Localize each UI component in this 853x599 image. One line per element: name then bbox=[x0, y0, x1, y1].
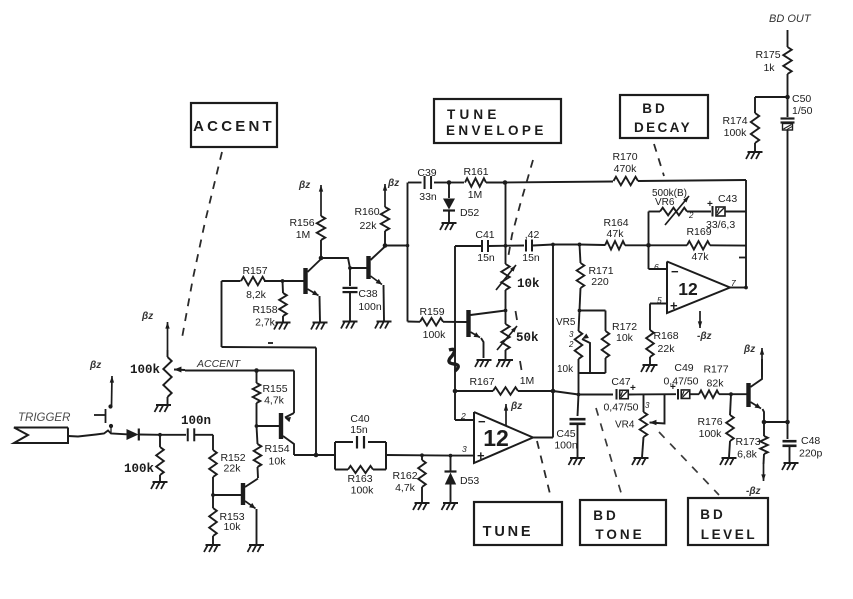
svg-text:100k: 100k bbox=[724, 127, 748, 139]
svg-text:1M: 1M bbox=[296, 229, 311, 241]
svg-text:R177: R177 bbox=[703, 364, 728, 376]
svg-text:R176: R176 bbox=[697, 416, 722, 428]
svg-text:10k: 10k bbox=[224, 521, 242, 533]
svg-text:3: 3 bbox=[569, 330, 574, 339]
svg-text:βz: βz bbox=[510, 401, 522, 412]
svg-text:C49: C49 bbox=[674, 362, 693, 374]
svg-text:6: 6 bbox=[654, 262, 659, 272]
svg-text:3: 3 bbox=[462, 444, 467, 454]
svg-text:22k: 22k bbox=[360, 220, 378, 232]
svg-text:12: 12 bbox=[483, 425, 509, 451]
svg-text:100k: 100k bbox=[351, 485, 375, 497]
svg-text:R156: R156 bbox=[289, 217, 314, 229]
svg-text:C48: C48 bbox=[801, 435, 820, 447]
svg-text:BD: BD bbox=[593, 508, 619, 523]
svg-text:TRIGGER: TRIGGER bbox=[18, 412, 70, 424]
svg-text:βz: βz bbox=[387, 178, 399, 189]
svg-text:C43: C43 bbox=[718, 193, 737, 205]
svg-text:15n: 15n bbox=[522, 252, 540, 264]
svg-text:βz: βz bbox=[141, 311, 153, 322]
svg-text:4,7k: 4,7k bbox=[264, 395, 285, 407]
svg-text:ENVELOPE: ENVELOPE bbox=[446, 123, 547, 138]
svg-text:−: − bbox=[478, 414, 486, 429]
svg-text:TUNE: TUNE bbox=[447, 107, 501, 122]
svg-text:0,47/50: 0,47/50 bbox=[603, 402, 638, 414]
svg-text:2,7k: 2,7k bbox=[255, 317, 276, 329]
svg-text:BD: BD bbox=[700, 507, 726, 522]
svg-text:3: 3 bbox=[645, 401, 650, 410]
svg-text:C41: C41 bbox=[475, 229, 494, 241]
svg-text:0,47/50: 0,47/50 bbox=[663, 376, 698, 388]
svg-text:10k: 10k bbox=[269, 456, 287, 468]
svg-text:470k: 470k bbox=[614, 163, 638, 175]
svg-text:100k: 100k bbox=[124, 462, 155, 476]
svg-text:47k: 47k bbox=[607, 228, 625, 240]
svg-text:8,2k: 8,2k bbox=[246, 289, 267, 301]
svg-text:33/6,3: 33/6,3 bbox=[706, 219, 735, 231]
svg-text:10k: 10k bbox=[557, 364, 574, 375]
svg-text:-βz: -βz bbox=[746, 486, 761, 497]
svg-text:R160: R160 bbox=[354, 206, 379, 218]
svg-text:R167: R167 bbox=[469, 376, 494, 388]
svg-text:12: 12 bbox=[678, 279, 698, 299]
svg-text:βz: βz bbox=[298, 180, 310, 191]
svg-text:10k: 10k bbox=[517, 277, 540, 291]
svg-text:VR5: VR5 bbox=[556, 317, 576, 328]
svg-text:ACCENT: ACCENT bbox=[193, 118, 275, 135]
svg-text:R159: R159 bbox=[419, 306, 444, 318]
svg-text:33n: 33n bbox=[419, 191, 437, 203]
svg-text:-βz: -βz bbox=[697, 331, 712, 342]
svg-text:DECAY: DECAY bbox=[634, 120, 692, 135]
svg-text:R163: R163 bbox=[347, 473, 372, 485]
svg-text:βz: βz bbox=[89, 360, 101, 371]
svg-text:6,8k: 6,8k bbox=[737, 449, 758, 461]
svg-text:22k: 22k bbox=[224, 463, 242, 475]
svg-text:R158: R158 bbox=[252, 304, 277, 316]
svg-text:15n: 15n bbox=[477, 252, 495, 264]
svg-text:BD OUT: BD OUT bbox=[769, 13, 812, 25]
svg-text:C50: C50 bbox=[792, 93, 811, 105]
svg-text:100n: 100n bbox=[554, 440, 578, 452]
svg-text:50k: 50k bbox=[516, 331, 539, 345]
svg-text:2: 2 bbox=[688, 211, 694, 220]
svg-text:BD: BD bbox=[642, 101, 668, 116]
svg-text:D52: D52 bbox=[460, 207, 479, 219]
svg-text:R154: R154 bbox=[264, 443, 289, 455]
svg-text:220p: 220p bbox=[799, 448, 823, 460]
svg-text:7: 7 bbox=[731, 278, 736, 288]
svg-text:LEVEL: LEVEL bbox=[701, 527, 758, 542]
svg-text:100n: 100n bbox=[358, 301, 382, 313]
svg-text:C38: C38 bbox=[358, 288, 377, 300]
svg-text:−: − bbox=[671, 264, 679, 279]
svg-text:,42: ,42 bbox=[525, 229, 540, 241]
svg-text:100k: 100k bbox=[130, 363, 161, 377]
svg-text:R168: R168 bbox=[653, 330, 678, 342]
svg-text:1M: 1M bbox=[468, 189, 483, 201]
svg-text:R175: R175 bbox=[755, 49, 780, 61]
svg-text:R157: R157 bbox=[242, 265, 267, 277]
svg-text:D53: D53 bbox=[460, 475, 479, 487]
svg-text:R174: R174 bbox=[722, 115, 747, 127]
svg-text:2: 2 bbox=[568, 340, 574, 349]
svg-text:R162: R162 bbox=[392, 470, 417, 482]
svg-text:TONE: TONE bbox=[595, 527, 644, 542]
svg-text:1k: 1k bbox=[763, 62, 775, 74]
svg-text:15n: 15n bbox=[350, 424, 368, 436]
svg-text:TUNE: TUNE bbox=[483, 524, 534, 540]
svg-text:+: + bbox=[670, 298, 678, 313]
svg-text:1/50: 1/50 bbox=[792, 105, 813, 117]
svg-text:R173: R173 bbox=[735, 436, 760, 448]
svg-text:100k: 100k bbox=[699, 428, 723, 440]
svg-text:C45: C45 bbox=[556, 428, 575, 440]
svg-text:R170: R170 bbox=[612, 151, 637, 163]
svg-text:10k: 10k bbox=[616, 332, 634, 344]
svg-text:VR6: VR6 bbox=[655, 197, 675, 208]
svg-text:4,7k: 4,7k bbox=[395, 482, 416, 494]
svg-text:22k: 22k bbox=[658, 343, 676, 355]
svg-text:47k: 47k bbox=[692, 251, 710, 263]
svg-text:βz: βz bbox=[743, 344, 755, 355]
svg-text:R161: R161 bbox=[463, 166, 488, 178]
svg-text:100n: 100n bbox=[181, 414, 211, 428]
svg-text:C39: C39 bbox=[417, 167, 436, 179]
svg-text:+: + bbox=[477, 448, 485, 463]
svg-text:VR4: VR4 bbox=[615, 420, 635, 431]
svg-text:82k: 82k bbox=[707, 378, 725, 390]
svg-text:ACCENT: ACCENT bbox=[196, 358, 242, 370]
svg-text:220: 220 bbox=[591, 276, 609, 288]
svg-text:C47: C47 bbox=[611, 376, 630, 388]
svg-text:100k: 100k bbox=[423, 329, 447, 341]
svg-text:+: + bbox=[630, 383, 636, 394]
svg-text:R155: R155 bbox=[262, 383, 287, 395]
svg-text:+: + bbox=[707, 199, 713, 210]
svg-text:1M: 1M bbox=[520, 375, 535, 387]
